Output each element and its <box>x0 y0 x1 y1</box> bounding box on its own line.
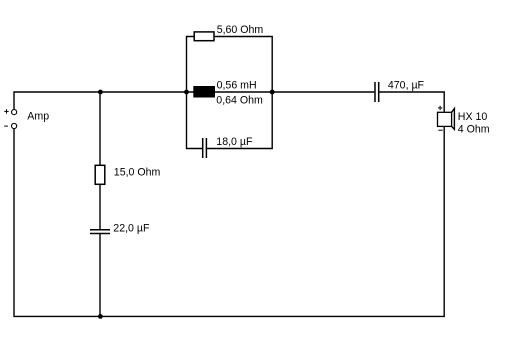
capacitor 18,0 uF <box>203 138 207 158</box>
wire: top rail from Amp+ to crossover block left rail <box>14 92 187 110</box>
svg-text:18,0 µF: 18,0 µF <box>216 136 253 148</box>
svg-text:15,0 Ohm: 15,0 Ohm <box>114 166 161 178</box>
inductor 0,56 mH (0,64 Ohm) <box>194 87 215 98</box>
wire: from capacitor 470 uF to speaker, corner down <box>379 92 444 112</box>
capacitor 470 uF <box>375 82 379 102</box>
node: junction of shunt branch and bottom rail <box>98 314 103 319</box>
svg-text:22,0 µF: 22,0 µF <box>113 222 150 234</box>
svg-text:4 Ohm: 4 Ohm <box>458 124 490 136</box>
svg-text:Amp: Amp <box>27 111 49 123</box>
node: junction middle branch at left rail <box>184 90 189 95</box>
svg-text:0,64 Ohm: 0,64 Ohm <box>216 94 263 106</box>
node: junction middle branch at right rail <box>270 90 275 95</box>
wire: capacitor 22,0 uF down to bottom rail <box>99 234 101 317</box>
speaker HX 10 <box>438 109 455 130</box>
resistor 5,60 Ohm <box>194 32 214 41</box>
resistor 15,0 Ohm <box>95 165 105 184</box>
wire: return path from Amp- down, along bottom rail, up to speaker <box>14 126 444 316</box>
svg-text:HX 10: HX 10 <box>458 111 488 123</box>
wire: from crossover block to capacitor 470 uF <box>272 91 374 93</box>
wire: crossover block right rail with top and bottom stubs <box>207 37 272 149</box>
svg-text:470, µF: 470, µF <box>388 80 425 92</box>
node: junction of top rail and RC shunt branch <box>98 90 103 95</box>
wire: between resistor 15,0 Ohm and capacitor 22,0 uF <box>99 184 101 230</box>
polarity label + at speaker <box>438 106 442 110</box>
amplifier Amp terminals <box>12 110 17 129</box>
polarity label + at Amp <box>4 109 8 113</box>
polarity label - at speaker <box>438 129 442 131</box>
polarity label - at Amp <box>4 125 8 127</box>
svg-text:0,56 mH: 0,56 mH <box>217 80 257 92</box>
wire: middle branch through inductor <box>187 91 273 93</box>
wire: shunt branch from top rail down to resistor 15,0 Ohm <box>99 92 101 165</box>
wire: crossover block left rail with top and bottom stubs <box>187 37 203 149</box>
capacitor 22,0 uF <box>90 230 110 234</box>
svg-text:5,60 Ohm: 5,60 Ohm <box>217 24 264 36</box>
